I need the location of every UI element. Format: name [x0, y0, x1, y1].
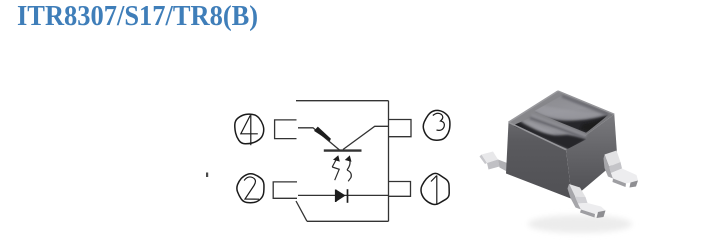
lead left	[480, 152, 511, 174]
ridge highlight	[532, 115, 587, 136]
title: part number	[17, 1, 258, 33]
LED cathode bar	[347, 189, 349, 203]
emitter arrowhead	[314, 127, 331, 142]
pad 4	[275, 120, 297, 139]
LED anode bar	[335, 190, 337, 203]
body right face	[566, 114, 618, 199]
window 2 base	[513, 118, 588, 149]
body top face	[509, 91, 615, 150]
pin circle 1	[421, 173, 449, 204]
rim edge highlights	[509, 91, 559, 122]
lead right	[604, 151, 639, 188]
package chamfer corner	[296, 201, 307, 221]
digit 2	[244, 177, 259, 199]
body left face	[506, 122, 572, 199]
window 1 inner top shadow	[562, 96, 608, 114]
digit 4	[241, 115, 258, 146]
lead front	[568, 184, 606, 218]
window 1 base	[534, 96, 609, 133]
soft shadow	[528, 215, 632, 233]
digit 1	[431, 176, 437, 205]
light arrow 1	[332, 159, 339, 181]
transistor base bar	[324, 149, 362, 151]
wire LED pin2 to pin1	[298, 194, 389, 196]
wire pin4 to emitter	[298, 128, 340, 150]
wire collector to pin3	[343, 126, 389, 149]
LED triangle	[336, 190, 345, 202]
window 2 inner top shadow	[530, 118, 586, 138]
pad 3	[389, 120, 411, 137]
stray speck	[206, 173, 208, 178]
package bottom edge	[307, 220, 389, 222]
package right edge	[388, 101, 390, 222]
pin circle 3	[423, 110, 450, 140]
digit 3	[433, 113, 445, 130]
window 1 bright streak	[535, 104, 604, 119]
pad 2	[273, 182, 297, 198]
pin circle 2	[237, 174, 264, 203]
window 1 dark wedge	[534, 112, 609, 139]
window 2 dark wedge	[513, 121, 588, 151]
package top edge	[296, 100, 389, 102]
light arrow 2	[347, 159, 351, 182]
pin circle 4	[235, 114, 264, 144]
pad 1	[389, 182, 411, 197]
